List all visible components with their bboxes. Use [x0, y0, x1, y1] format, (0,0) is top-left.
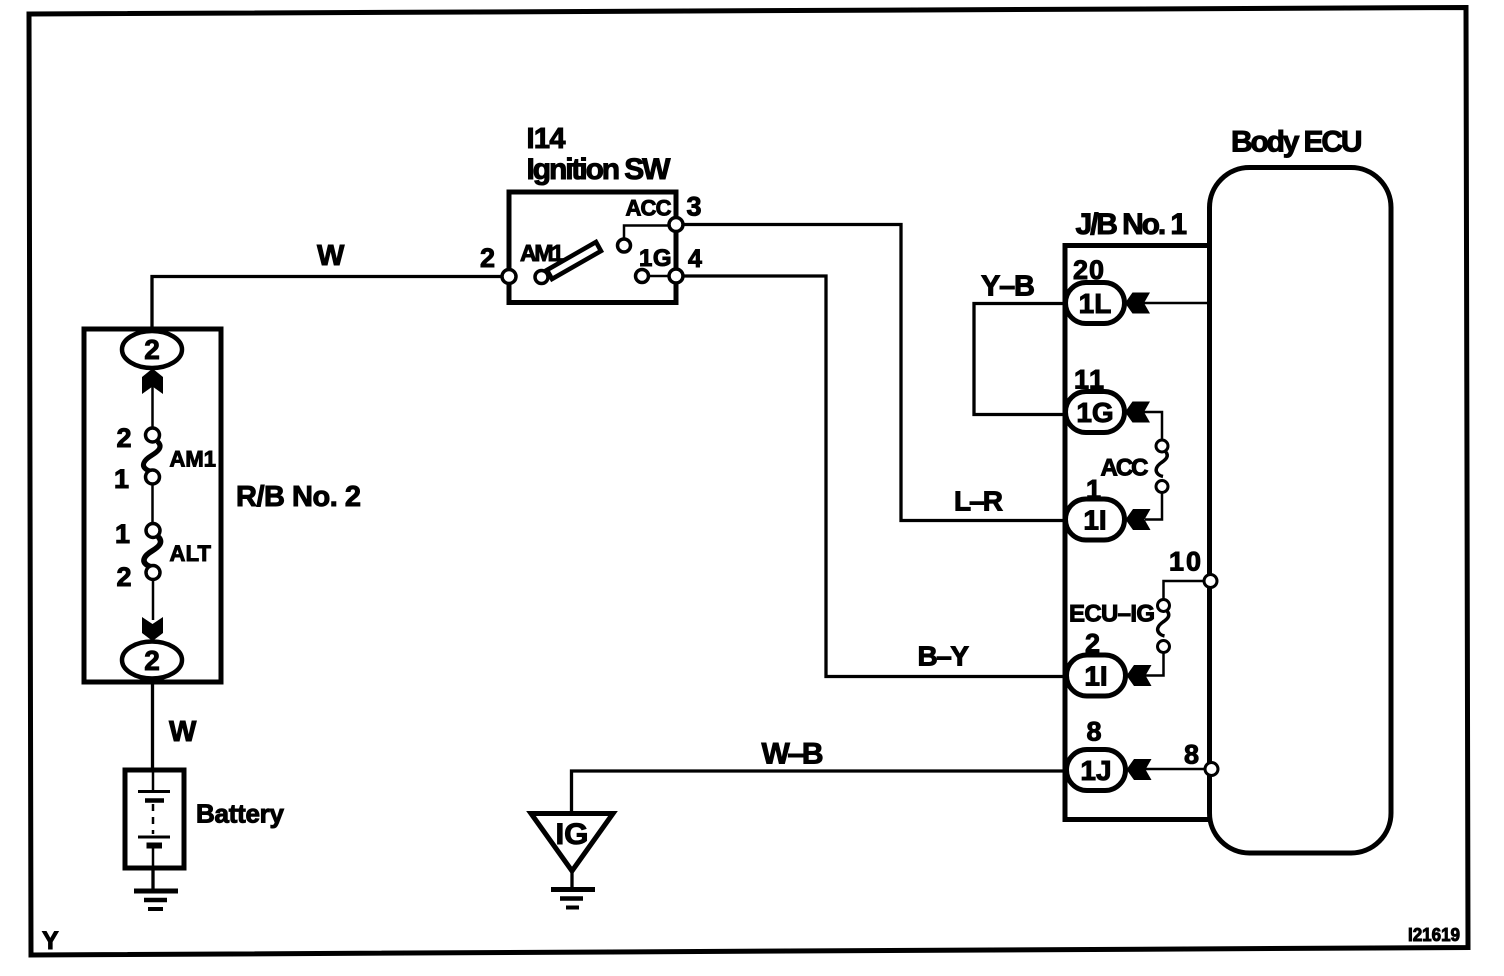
- svg-text:3: 3: [687, 192, 702, 222]
- svg-text:2: 2: [1085, 629, 1100, 659]
- svg-text:Battery: Battery: [196, 799, 285, 829]
- svg-text:B–Y: B–Y: [918, 641, 970, 672]
- svg-text:2: 2: [144, 334, 160, 365]
- svg-text:1J: 1J: [1080, 755, 1111, 786]
- svg-text:R/B No. 2: R/B No. 2: [236, 481, 361, 513]
- svg-text:2: 2: [144, 645, 160, 676]
- svg-text:1L: 1L: [1079, 288, 1112, 319]
- svg-text:IG: IG: [556, 818, 589, 851]
- svg-text:1: 1: [115, 519, 130, 549]
- svg-text:Body ECU: Body ECU: [1231, 126, 1363, 159]
- svg-text:AM1: AM1: [170, 447, 217, 472]
- svg-text:AM1: AM1: [520, 240, 564, 266]
- svg-text:W: W: [169, 716, 197, 748]
- svg-text:J/B No. 1: J/B No. 1: [1076, 208, 1188, 241]
- svg-text:L–R: L–R: [954, 486, 1003, 517]
- svg-text:ACC: ACC: [626, 196, 672, 221]
- svg-text:I14: I14: [527, 123, 566, 155]
- svg-text:2: 2: [480, 243, 495, 273]
- svg-text:Ignition SW: Ignition SW: [527, 153, 672, 186]
- svg-text:8: 8: [1184, 740, 1199, 770]
- svg-text:Y: Y: [42, 927, 59, 955]
- svg-text:2: 2: [116, 423, 131, 453]
- svg-text:20: 20: [1073, 255, 1104, 285]
- svg-text:11: 11: [1074, 365, 1104, 395]
- svg-text:1G: 1G: [1076, 397, 1113, 428]
- svg-text:4: 4: [688, 245, 702, 273]
- svg-text:1: 1: [1086, 475, 1101, 505]
- svg-text:W: W: [317, 240, 345, 272]
- svg-text:1I: 1I: [1084, 661, 1107, 692]
- svg-text:1I: 1I: [1083, 505, 1106, 536]
- svg-text:ACC: ACC: [1101, 455, 1149, 482]
- svg-text:Y–B: Y–B: [981, 271, 1035, 303]
- svg-text:10: 10: [1169, 547, 1201, 577]
- svg-text:W–B: W–B: [762, 738, 824, 771]
- svg-text:ECU–IG: ECU–IG: [1069, 601, 1155, 628]
- svg-text:ALT: ALT: [170, 541, 212, 566]
- svg-text:2: 2: [116, 562, 131, 592]
- svg-text:I21619: I21619: [1408, 925, 1460, 945]
- svg-text:8: 8: [1087, 717, 1102, 747]
- svg-text:1G: 1G: [639, 245, 672, 272]
- svg-text:1: 1: [114, 464, 129, 494]
